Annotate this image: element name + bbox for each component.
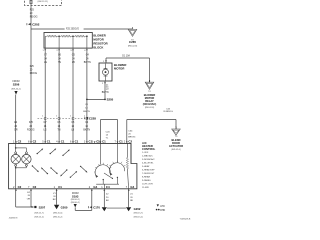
S207 refs [34, 212, 44, 218]
mode legend list [142, 152, 155, 189]
svg-text:20 BR/OG: 20 BR/OG [163, 111, 173, 113]
connector: blend door actuator triangle [172, 127, 181, 138]
svg-text:C1: C1 [47, 140, 51, 144]
svg-text:TN: TN [57, 129, 60, 131]
switch internal link [96, 184, 119, 189]
blower motor pin 2 [102, 82, 106, 85]
svg-text:C1: C1 [102, 140, 106, 144]
svg-text:RHD: RHD [160, 210, 165, 212]
svg-text:C2: C2 [33, 185, 37, 189]
switch rotary arc 1 [94, 143, 113, 184]
blower motor resistor block box [44, 33, 92, 49]
svg-text:C1: C1 [119, 140, 123, 144]
svg-text:4-BI-LEVEL: 4-BI-LEVEL [142, 162, 154, 164]
switch wipers row 2 [32, 165, 39, 172]
svg-text:S207: S207 [39, 206, 46, 210]
label: BLOWER MOTOR [114, 63, 126, 71]
ground G200 [53, 205, 68, 219]
wire E2 OR return [30, 189, 32, 207]
switch top edge pins [13, 140, 22, 144]
svg-text:(8W-40-2): (8W-40-2) [71, 199, 80, 201]
svg-text:(8W-42-6): (8W-42-6) [171, 149, 181, 151]
wire from S193 to switch [75, 189, 92, 211]
svg-text:(8W-15-2): (8W-15-2) [53, 216, 63, 218]
svg-text:C2: C2 [128, 140, 132, 144]
label G202 [134, 207, 144, 218]
svg-text:TN: TN [58, 62, 61, 64]
wire Z2 20 BK to G202 left [103, 189, 105, 208]
svg-text:C2: C2 [18, 185, 22, 189]
svg-text:G202: G202 [134, 207, 141, 211]
node: junction of F25 feed and C265 branch [31, 28, 133, 30]
svg-text:G200: G200 [61, 205, 68, 209]
svg-text:C228: C228 [89, 117, 96, 121]
wire label Z2 20 BK [106, 193, 109, 202]
connector: blower motor relay (triangle) [145, 80, 154, 93]
svg-text:ACTUATOR: ACTUATOR [169, 144, 183, 148]
legend LHD/RHD [156, 204, 166, 211]
wire C6 TN resistor M1 to switch [58, 51, 60, 143]
svg-text:1-OFF: 1-OFF [142, 152, 149, 154]
label: BLEND DOOR ACTUATOR [169, 138, 183, 151]
svg-text:S206: S206 [13, 83, 20, 87]
svg-text:BK/TN: BK/TN [84, 62, 91, 64]
wire jumper mode switch loop [101, 120, 118, 144]
svg-text:RD/OG: RD/OG [30, 16, 38, 19]
svg-text:TJ48QW-B: TJ48QW-B [180, 218, 191, 220]
connector C170 [89, 205, 101, 209]
wire label Z1 20 BK [53, 193, 57, 201]
ground bus link [107, 207, 126, 209]
wire D: relay output to blower motor [106, 58, 150, 83]
wire label C4 14 BK/TN below splice [83, 104, 90, 113]
resistor block pins C4 C5 C6 C7 [43, 48, 88, 52]
svg-text:10-FLOOR: 10-FLOOR [142, 184, 153, 186]
ground G202 right triangle [126, 207, 131, 211]
resistor block pin wire labels [44, 54, 48, 64]
svg-text:C2: C2 [18, 140, 22, 144]
svg-text:LHD: LHD [160, 206, 165, 208]
wire C4 BK/TN resistor HI to switch [86, 51, 88, 143]
svg-text:J048W-8: J048W-8 [9, 218, 18, 220]
wire E2 panel lamps feed [15, 95, 17, 144]
svg-text:OR: OR [27, 199, 31, 201]
label: A/C HEATER CONTROL [142, 141, 156, 151]
svg-text:(8W-42-8): (8W-42-8) [145, 107, 155, 109]
wire blend door drive [127, 120, 176, 144]
page code left [9, 218, 18, 220]
fuse F25 [30, 0, 48, 5]
svg-text:1: 1 [56, 116, 57, 118]
svg-text:LG: LG [44, 62, 47, 64]
svg-text:9-PANEL: 9-PANEL [142, 179, 152, 182]
svg-text:C1: C1 [75, 140, 79, 144]
svg-text:1: 1 [70, 116, 71, 118]
switch internal resistor [126, 143, 128, 188]
svg-text:6-HEAT/DEF: 6-HEAT/DEF [142, 168, 155, 171]
fuse block (junction block, dashed outline) [24, 0, 61, 5]
resistor block internal posts [45, 35, 87, 48]
svg-text:7-DEFROST: 7-DEFROST [142, 173, 155, 175]
switch rotary arc 2 [109, 143, 125, 184]
wire labels below C228 [14, 122, 18, 131]
svg-text:(ON HVAC): (ON HVAC) [143, 102, 157, 106]
A/C heater mode control switch box [9, 143, 137, 188]
switch wipers row 1 [37, 149, 44, 155]
svg-text:MOTOR: MOTOR [114, 67, 124, 71]
splice S205 [86, 98, 114, 102]
wire Z1 20 BK to G202 right [128, 189, 130, 208]
wire C7 LG resistor LO to switch [44, 51, 46, 143]
svg-text:F25: F25 [29, 122, 34, 124]
connector C228 dashed gang line [38, 116, 97, 121]
resistor R-M2 [73, 35, 87, 37]
splice S207 [16, 206, 46, 210]
svg-text:CONTROL: CONTROL [142, 147, 156, 151]
svg-text:C1: C1 [61, 140, 65, 144]
svg-text:S205: S205 [107, 98, 114, 102]
wire label C34 20 BR/OG [128, 130, 135, 138]
wire label F25 20 RD/OG [30, 9, 38, 19]
svg-text:LG: LG [43, 129, 46, 131]
connector C265 (to A/C compressor circuit) [128, 27, 138, 48]
svg-text:(8W-15-2): (8W-15-2) [134, 216, 144, 218]
svg-text:S193: S193 [72, 194, 79, 198]
wire C5 LB resistor M2 to switch [72, 51, 74, 143]
ground G202 left triangle [102, 207, 107, 211]
svg-text:C202: C202 [32, 22, 40, 26]
svg-text:C170: C170 [93, 205, 100, 209]
svg-text:C1: C1 [58, 185, 62, 189]
svg-text:5-HEAT: 5-HEAT [142, 165, 150, 168]
page code right [180, 218, 191, 220]
svg-text:D1 10A: D1 10A [122, 55, 130, 58]
label: BLOWER MOTOR RELAY (ON HVAC) [143, 93, 157, 109]
svg-text:(8W-44-2): (8W-44-2) [11, 88, 21, 90]
svg-text:11-MIX: 11-MIX [142, 187, 149, 189]
svg-text:(8W-40-2): (8W-40-2) [71, 202, 80, 204]
switch bottom edge pins [13, 185, 22, 191]
svg-text:1: 1 [42, 116, 43, 118]
svg-text:BK/TN: BK/TN [102, 92, 109, 94]
blower motor pin 1 [103, 60, 107, 63]
svg-text:BLOCK: BLOCK [93, 46, 103, 50]
blower motor M1 [99, 63, 112, 81]
wire label Z1 20 BK/TN [102, 85, 109, 94]
wire label 20 RD/OG [30, 66, 38, 75]
svg-text:G4: G4 [93, 185, 97, 189]
wire label C20 14 YL [106, 131, 111, 139]
resistor R-LO [45, 35, 59, 37]
svg-text:(8W-15-7): (8W-15-7) [134, 213, 144, 215]
label: BLOWER MOTOR RESISTOR BLOCK [93, 34, 107, 50]
wire F25 RD/OG down to switch [30, 29, 32, 143]
svg-text:2-MAX A/C: 2-MAX A/C [142, 154, 153, 157]
svg-text:8-REAR: 8-REAR [142, 176, 150, 179]
svg-text:C4: C4 [106, 185, 110, 189]
svg-text:(8W-15-2): (8W-15-2) [34, 216, 44, 218]
panel lamps (illumination) [11, 143, 31, 188]
svg-text:3-NORM A/C: 3-NORM A/C [142, 158, 155, 161]
svg-text:(8W-12-11): (8W-12-11) [38, 1, 49, 3]
wire label D 10A [122, 55, 130, 58]
svg-text:C2: C2 [33, 140, 37, 144]
svg-text:G4: G4 [130, 185, 134, 189]
wire label E2 20 OR [27, 192, 31, 201]
svg-text:LB: LB [72, 62, 75, 64]
svg-text:C265: C265 [129, 40, 136, 44]
wire Z1 20 BK/TN motor ground [104, 81, 106, 99]
svg-text:RD/OG: RD/OG [30, 73, 38, 75]
wire label Z1 20 BK right [130, 193, 133, 202]
svg-text:(8W-15-6): (8W-15-6) [53, 212, 63, 214]
svg-text:(8W-15-7): (8W-15-7) [34, 212, 44, 214]
svg-text:BK/TN: BK/TN [83, 129, 90, 131]
feed arrow FROM S206 [11, 80, 21, 95]
svg-text:(8W-42-8): (8W-42-8) [128, 46, 138, 48]
svg-text:F25 20DG/O: F25 20DG/O [66, 29, 79, 31]
svg-text:RD/OG: RD/OG [27, 129, 35, 131]
wire label F25 20 DG/OG [65, 27, 84, 31]
connector C202 [27, 22, 40, 26]
wire F25 fused B+ down from fuse block [30, 5, 32, 29]
wire label above blend line [163, 108, 173, 113]
resistor R-M1 [59, 35, 73, 37]
svg-text:BR/OG: BR/OG [128, 136, 135, 138]
wire Z1 20 BK to G200 [56, 189, 58, 205]
feed arrow FROM S193 [71, 193, 80, 207]
svg-text:LB: LB [71, 129, 74, 131]
svg-text:OR: OR [14, 129, 18, 131]
wire panel lamps return [15, 189, 17, 207]
